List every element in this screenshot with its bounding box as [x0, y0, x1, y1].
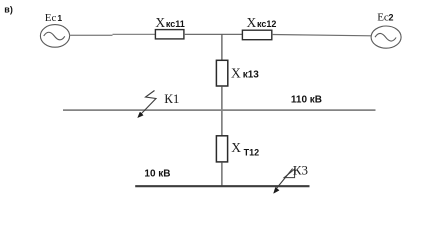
- svg-text:Т12: Т12: [244, 147, 260, 157]
- resistor XT12: [216, 136, 227, 162]
- svg-text:Ec: Ec: [377, 11, 389, 23]
- svg-text:Ec: Ec: [45, 12, 57, 24]
- svg-text:К3: К3: [293, 162, 308, 177]
- svg-text:кс12: кс12: [257, 19, 276, 29]
- svg-text:X: X: [247, 15, 257, 30]
- source Ec1: [40, 25, 69, 48]
- svg-text:X: X: [155, 15, 165, 30]
- wire Ec1 to Xкс11: [70, 33, 156, 36]
- resistor Xк13: [216, 60, 227, 86]
- svg-text:1: 1: [57, 13, 62, 23]
- svg-text:110 кВ: 110 кВ: [291, 95, 322, 106]
- svg-text:X: X: [231, 66, 241, 81]
- label Ec1: [45, 12, 63, 24]
- fault K1: [138, 91, 156, 118]
- label Xкс11: [155, 15, 184, 30]
- svg-text:10 кВ: 10 кВ: [144, 169, 170, 180]
- svg-text:X: X: [231, 140, 241, 155]
- label Ec2: [377, 11, 393, 23]
- node junction top wire: [221, 34, 223, 60]
- resistor Xкс11: [155, 30, 184, 39]
- svg-text:кс11: кс11: [166, 19, 185, 29]
- resistor Xкс12: [242, 30, 271, 40]
- fault K3: [274, 169, 295, 194]
- bus 10 кВ: [135, 185, 309, 187]
- source Ec2: [371, 26, 401, 48]
- wire XT12 to bus: [221, 162, 223, 186]
- bus 110 кВ: [63, 109, 376, 111]
- svg-text:в): в): [4, 4, 13, 14]
- svg-text:к13: к13: [243, 70, 260, 81]
- svg-text:2: 2: [389, 12, 394, 22]
- wire Xк13 to XT12: [221, 86, 223, 136]
- svg-text:К1: К1: [164, 91, 179, 106]
- wire Xкс11 to Xкс12: [184, 33, 243, 35]
- label Xк13: [231, 66, 259, 81]
- wire Xкс12 to Ec2: [272, 35, 371, 36]
- label Xкс12: [247, 15, 277, 30]
- label XT12: [231, 140, 259, 157]
